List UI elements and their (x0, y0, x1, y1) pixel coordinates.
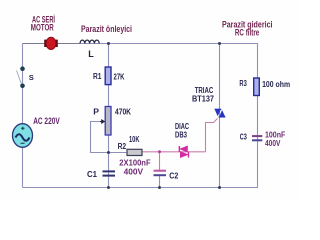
label DIAC DB3 (175, 121, 189, 139)
svg-text:DB3: DB3 (175, 129, 187, 139)
wire top horizontal (23, 43, 259, 45)
node junction top R1 (107, 42, 110, 45)
wire C2 branch magenta upper (159, 152, 161, 170)
wire top-left darker segment near motor (23, 43, 80, 45)
inductor L (80, 40, 99, 43)
diac DB3 (179, 146, 188, 158)
wire right branch R3-C3 vertical (257, 44, 259, 188)
capacitor C3 (252, 136, 262, 140)
label AC SERI MOTOR (31, 15, 55, 33)
svg-text:10K: 10K (129, 134, 140, 144)
svg-text:RC filtre: RC filtre (235, 27, 259, 37)
wire node to R2 (109, 152, 128, 154)
motor M (AC seri motor) (44, 37, 58, 49)
triac BT137 (215, 109, 226, 117)
node junction C2 top (158, 150, 161, 153)
svg-text:MOTOR: MOTOR (31, 22, 54, 32)
svg-text:BT137: BT137 (192, 94, 214, 104)
svg-text:L: L (88, 49, 94, 59)
wire TRIAC branch vertical (219, 44, 221, 188)
wire left vertical (22, 44, 24, 188)
label Parazit giderici RC filtre (222, 19, 273, 37)
wire R1-P-C1 branch vertical (108, 44, 110, 188)
capacitor C1 (103, 171, 116, 175)
node junction bottom C2 (158, 186, 161, 189)
resistor R1 (105, 67, 111, 85)
label 100nF 400V (265, 129, 285, 148)
resistor R3 (254, 78, 260, 96)
AC source V1 (13, 124, 33, 148)
svg-text:S: S (29, 73, 34, 82)
svg-text:R3: R3 (239, 78, 247, 88)
capacitor C2 (154, 171, 167, 176)
node junction bottom C1 (107, 186, 110, 189)
potentiometer P 470K (100, 107, 112, 136)
resistor R2 (127, 149, 142, 155)
svg-text:AC 220V: AC 220V (33, 116, 60, 126)
svg-text:100 ohm: 100 ohm (262, 79, 290, 89)
svg-text:R2: R2 (118, 141, 127, 151)
svg-text:470K: 470K (115, 107, 132, 117)
label 2X100nF 400V (119, 158, 150, 177)
node junction wiper R2 (107, 151, 110, 154)
svg-text:C3: C3 (240, 131, 247, 141)
svg-text:27K: 27K (114, 72, 126, 82)
node junction bottom TRIAC (218, 186, 221, 189)
svg-text:Parazit önleyici: Parazit önleyici (81, 24, 132, 34)
svg-text:R1: R1 (93, 71, 102, 81)
label TRIAC BT137 (192, 85, 214, 104)
switch S (17, 66, 25, 88)
wire potentiometer wiper loop (91, 122, 109, 153)
wire gate riser magenta (206, 119, 218, 152)
svg-text:400V: 400V (265, 138, 281, 148)
svg-text:P: P (93, 107, 99, 117)
svg-text:400V: 400V (124, 167, 144, 177)
svg-text:C2: C2 (169, 170, 178, 180)
wire C2 branch lower (159, 176, 161, 188)
svg-text:C1: C1 (87, 169, 97, 179)
node junction top TRIAC (218, 42, 221, 45)
wire R2 to DIAC magenta (142, 151, 206, 153)
wire bottom horizontal (23, 187, 259, 189)
